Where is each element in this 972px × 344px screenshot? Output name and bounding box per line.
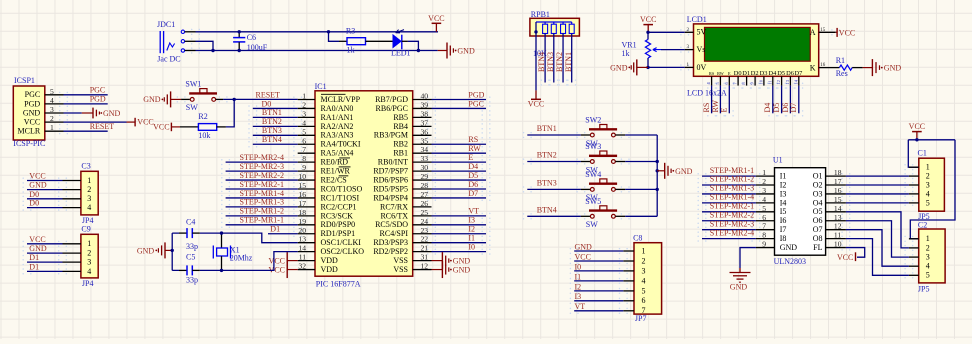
switch SW4 [581, 170, 625, 202]
capacitor C6 100uF [233, 32, 268, 52]
svg-text:I2: I2 [780, 180, 787, 189]
svg-text:3: 3 [926, 180, 930, 189]
svg-text:RS: RS [709, 71, 715, 76]
wire STEP-MR1-1 (U1) [702, 175, 756, 177]
svg-text:R1: R1 [836, 56, 845, 65]
svg-text:GND: GND [143, 95, 161, 104]
svg-text:I2: I2 [575, 282, 582, 291]
svg-text:RA4/T0CKI: RA4/T0CKI [321, 140, 361, 149]
svg-text:4: 4 [926, 189, 930, 198]
svg-text:VCC: VCC [839, 28, 855, 37]
wire D0 (C3 pin3) [27, 198, 63, 200]
svg-text:JP4: JP4 [82, 279, 94, 288]
svg-text:3: 3 [926, 253, 930, 262]
svg-text:1k: 1k [347, 46, 355, 55]
wire switch common bus [656, 135, 658, 216]
svg-text:VT: VT [468, 207, 479, 216]
power port GND (top right) [438, 43, 475, 59]
LCD module LCD1 (LCD 16x2A) [685, 15, 836, 98]
power port GND (VSS pin12) [432, 261, 471, 278]
svg-text:8: 8 [762, 231, 766, 240]
svg-text:I1: I1 [468, 234, 475, 243]
svg-text:26: 26 [421, 199, 429, 208]
wire RW (right) [432, 152, 487, 154]
svg-text:13: 13 [834, 213, 842, 222]
svg-text:1k: 1k [622, 49, 630, 58]
svg-text:STEP-MR2-4: STEP-MR2-4 [240, 153, 284, 162]
junction LED/bottom rail [417, 49, 420, 52]
svg-text:E: E [728, 71, 731, 76]
svg-text:16: 16 [298, 190, 306, 199]
svg-text:RD4/PSP4: RD4/PSP4 [373, 193, 408, 202]
wire bottom rail [196, 50, 438, 52]
svg-text:VCC: VCC [137, 118, 153, 127]
svg-text:Jac DC: Jac DC [157, 55, 180, 64]
svg-text:R3: R3 [346, 27, 355, 36]
svg-text:STEP-MR2-1: STEP-MR2-1 [710, 202, 754, 211]
power port VCC (LCD A) [836, 28, 856, 37]
svg-text:VCC: VCC [269, 257, 285, 266]
svg-text:17: 17 [298, 199, 306, 208]
svg-text:VCC: VCC [575, 252, 591, 261]
wire middle jack pin down to bottom rail [196, 41, 214, 50]
wire D6 (right) [432, 188, 487, 190]
switch SW1 [181, 80, 223, 113]
svg-text:VSS: VSS [393, 265, 408, 274]
wire GND (C8) [574, 250, 623, 252]
svg-text:RESET: RESET [256, 90, 281, 99]
svg-text:SW: SW [186, 103, 198, 112]
svg-text:27: 27 [421, 190, 429, 199]
svg-text:GND: GND [29, 181, 47, 190]
svg-text:GND: GND [675, 167, 693, 176]
svg-text:OSC1/CLKI: OSC1/CLKI [321, 238, 362, 247]
svg-text:12: 12 [421, 262, 429, 271]
wire D4 (LCD) [772, 86, 774, 114]
svg-text:2: 2 [87, 249, 91, 258]
wire PGD (right) [432, 99, 487, 101]
svg-text:4: 4 [302, 118, 306, 127]
wire VCC distribution loop [908, 140, 955, 239]
svg-text:SW1: SW1 [185, 80, 201, 89]
svg-text:ULN2803: ULN2803 [774, 257, 806, 266]
svg-text:VCC: VCC [640, 15, 656, 24]
svg-text:U1: U1 [773, 156, 783, 165]
wire VCC to 5V [648, 31, 685, 32]
svg-text:5: 5 [50, 87, 54, 96]
power port GND (crystal) [137, 242, 172, 258]
svg-text:GND: GND [23, 108, 41, 117]
svg-text:GND: GND [453, 257, 471, 266]
wire D1 (pin20) [268, 233, 298, 235]
svg-text:D5: D5 [777, 70, 785, 77]
power port GND (SW1) [143, 91, 181, 107]
svg-text:24: 24 [421, 217, 429, 226]
svg-text:4: 4 [926, 262, 930, 271]
power port VCC (VDD pin32) [269, 261, 298, 278]
svg-text:16: 16 [834, 186, 842, 195]
wire STEP-MR2-2 (U1) [702, 220, 756, 222]
svg-text:RB7/PGD: RB7/PGD [375, 95, 408, 104]
svg-text:RW: RW [717, 71, 724, 76]
svg-text:O7: O7 [813, 225, 823, 234]
svg-text:JP5: JP5 [918, 284, 930, 293]
svg-text:D5: D5 [772, 103, 781, 113]
svg-text:PIC 16F877A: PIC 16F877A [316, 280, 361, 289]
svg-text:C1: C1 [918, 149, 927, 158]
svg-text:O4: O4 [813, 198, 823, 207]
svg-text:30: 30 [421, 163, 429, 172]
junction GND tap [171, 249, 174, 252]
svg-text:JP7: JP7 [635, 314, 647, 323]
power port VCC (R2) [153, 123, 180, 132]
IC IC1 PIC 16F877A [298, 82, 432, 289]
power port VCC (RPB1) [528, 90, 544, 108]
svg-text:GND: GND [610, 63, 628, 72]
svg-text:PGD: PGD [468, 90, 484, 99]
junction RPB1 common [534, 30, 537, 33]
svg-text:RW: RW [711, 100, 720, 113]
svg-text:2: 2 [762, 177, 766, 186]
svg-text:VDD: VDD [321, 265, 339, 274]
svg-text:RC0/T1OSO: RC0/T1OSO [321, 184, 363, 193]
svg-text:PGD: PGD [90, 95, 106, 104]
svg-text:2: 2 [926, 243, 930, 252]
wire BTN1 (RPB1 pin) [571, 34, 573, 83]
svg-text:D4: D4 [763, 103, 772, 113]
switch SW3 [581, 142, 625, 174]
svg-text:1: 1 [926, 163, 930, 172]
svg-text:C5: C5 [186, 252, 195, 261]
svg-text:I4: I4 [780, 198, 787, 207]
svg-text:1: 1 [302, 92, 306, 101]
svg-text:RA2/AN2: RA2/AN2 [321, 122, 354, 131]
svg-text:9: 9 [302, 163, 306, 172]
svg-text:13: 13 [298, 235, 306, 244]
svg-text:BTN3: BTN3 [546, 52, 555, 72]
svg-text:10k: 10k [198, 131, 210, 140]
svg-text:VCC: VCC [909, 122, 925, 131]
svg-text:STEP-MR1-3: STEP-MR1-3 [710, 184, 754, 193]
wire BTN1 (pin3) [253, 116, 298, 118]
wire D6 (LCD) [789, 86, 791, 114]
connector C8 (JP7) [623, 234, 661, 323]
wire O2 to C1 pin3 [846, 184, 909, 186]
svg-text:1: 1 [87, 176, 91, 185]
svg-text:R2: R2 [198, 112, 207, 121]
svg-text:RC2/CCP1: RC2/CCP1 [321, 202, 357, 211]
wire GND (C9 pin2) [27, 252, 63, 254]
svg-text:JDC1: JDC1 [157, 20, 175, 29]
power port VCC (VR1) [640, 15, 656, 31]
wire E (right) [432, 161, 487, 163]
svg-text:STEP-MR1-4: STEP-MR1-4 [240, 189, 284, 198]
svg-text:D6: D6 [468, 180, 478, 189]
svg-text:BTN2: BTN2 [537, 151, 557, 160]
svg-text:LED1: LED1 [391, 48, 411, 57]
svg-text:RESET: RESET [90, 122, 115, 131]
connector C2 (JP5) [909, 221, 945, 294]
wire RS (right) [432, 143, 487, 145]
svg-text:33: 33 [421, 154, 429, 163]
svg-text:ICSP-PIC: ICSP-PIC [13, 139, 45, 148]
junction VCC stem [915, 138, 918, 141]
wire SW3 to bus [625, 161, 657, 163]
junction bus GND [656, 169, 659, 172]
wire SW1 to IC pin1 (RESET) [223, 98, 298, 100]
svg-text:39: 39 [421, 100, 429, 109]
svg-text:14: 14 [793, 79, 798, 84]
svg-text:STEP-MR2-3: STEP-MR2-3 [710, 219, 754, 228]
svg-text:GND: GND [457, 47, 475, 56]
switch SW5 [581, 197, 625, 229]
wire STEP-MR1-2 [226, 215, 298, 217]
svg-text:I3: I3 [468, 216, 475, 225]
svg-text:RB0/INT: RB0/INT [378, 158, 408, 167]
svg-text:RB4: RB4 [393, 122, 408, 131]
wire RS (LCD) [711, 86, 713, 114]
svg-text:35: 35 [421, 136, 429, 145]
svg-text:12: 12 [834, 222, 842, 231]
svg-text:BTN1: BTN1 [564, 52, 573, 72]
svg-text:33p: 33p [186, 242, 198, 251]
svg-text:1: 1 [87, 239, 91, 248]
svg-text:D5: D5 [468, 171, 478, 180]
svg-text:VCC: VCC [837, 253, 853, 262]
wire STEP-MR2-3 (U1) [702, 229, 756, 231]
svg-text:LCD1: LCD1 [687, 15, 707, 24]
power port VCC (ICSP) [127, 118, 154, 127]
svg-text:15: 15 [298, 181, 306, 190]
svg-text:6: 6 [642, 296, 646, 305]
svg-text:15: 15 [820, 28, 826, 33]
svg-text:D7: D7 [789, 103, 798, 113]
wire left vertical C4-C5 [171, 233, 173, 270]
wire STEP-MR1-2 (U1) [702, 184, 756, 186]
wire D5 (LCD) [781, 86, 783, 114]
wire STEP-MR1-4 (U1) [702, 202, 756, 204]
svg-text:BTN4: BTN4 [262, 135, 282, 144]
wire D0 (pin2) [253, 107, 298, 109]
capacitor C5 33p [179, 252, 200, 284]
svg-text:SW2: SW2 [585, 116, 601, 125]
wire PGD [64, 103, 108, 105]
wire I0 (right) [432, 251, 487, 253]
wire PGC (right) [432, 107, 487, 109]
svg-text:5V: 5V [697, 28, 707, 37]
svg-text:7: 7 [762, 222, 766, 231]
svg-text:VSS: VSS [393, 256, 408, 265]
switch SW2 [581, 116, 625, 148]
wire D5 (right) [432, 179, 487, 181]
svg-text:D0: D0 [734, 70, 742, 77]
svg-text:I3: I3 [780, 189, 787, 198]
svg-text:17: 17 [834, 177, 842, 186]
svg-text:38: 38 [421, 109, 429, 118]
svg-text:GND: GND [730, 283, 748, 292]
svg-text:I8: I8 [780, 234, 787, 243]
wire BTN2 (pin4) [253, 125, 298, 127]
svg-text:VCC: VCC [528, 100, 544, 109]
svg-text:I5: I5 [780, 207, 787, 216]
svg-text:C3: C3 [81, 162, 90, 171]
connector C1 (JP5) [909, 149, 944, 222]
junction C6 bottom [238, 49, 241, 52]
wire top rail drop to R3 [329, 32, 340, 42]
svg-text:25: 25 [421, 208, 429, 217]
svg-text:VDD: VDD [321, 256, 339, 265]
junction C6 top [238, 30, 241, 33]
svg-text:D0: D0 [262, 99, 272, 108]
svg-text:33p: 33p [186, 276, 198, 285]
svg-text:D1: D1 [29, 253, 39, 262]
svg-text:I0: I0 [575, 262, 582, 271]
svg-text:I2: I2 [468, 225, 475, 234]
wire D7 (LCD) [798, 86, 800, 114]
connector C3 (JP4) [63, 162, 99, 225]
svg-text:2: 2 [642, 256, 646, 265]
svg-text:3: 3 [302, 109, 306, 118]
svg-text:O6: O6 [813, 216, 823, 225]
svg-text:RC7/RX: RC7/RX [380, 202, 408, 211]
svg-text:7: 7 [302, 145, 306, 154]
wire BTN1 to SW2 [527, 134, 581, 136]
svg-text:1: 1 [642, 246, 646, 255]
connector ICSP1 (ICSP-PIC header) [13, 76, 63, 148]
svg-text:C9: C9 [81, 225, 90, 234]
svg-text:O2: O2 [813, 180, 823, 189]
wire SW5 to bus [625, 215, 657, 217]
svg-text:VT: VT [575, 302, 586, 311]
svg-text:3: 3 [642, 266, 646, 275]
svg-text:RD0/PSP0: RD0/PSP0 [321, 220, 356, 229]
svg-text:RC5/SDO: RC5/SDO [375, 220, 408, 229]
svg-text:GND: GND [453, 265, 471, 274]
wire BTN4 (pin6) [253, 143, 298, 145]
svg-text:10: 10 [759, 79, 764, 84]
svg-text:6: 6 [302, 136, 306, 145]
svg-text:I7: I7 [780, 225, 787, 234]
resistor pack RPB1 10K [530, 10, 580, 58]
capacitor C4 33p [179, 218, 200, 252]
svg-text:STEP-MR2-1: STEP-MR2-1 [240, 180, 284, 189]
svg-text:31: 31 [421, 253, 429, 262]
wire VCC pin2 [64, 121, 127, 123]
svg-text:RD5/PSP5: RD5/PSP5 [373, 184, 408, 193]
svg-text:2: 2 [87, 185, 91, 194]
svg-text:RE2/CS: RE2/CS [321, 175, 347, 184]
crystal X1 20Mhz [213, 233, 253, 270]
svg-text:4: 4 [762, 195, 766, 204]
svg-text:RD1/PSP1: RD1/PSP1 [321, 229, 356, 238]
junction X1 top [220, 231, 223, 234]
svg-text:C4: C4 [186, 218, 195, 227]
svg-text:PGC: PGC [468, 99, 484, 108]
svg-text:D2: D2 [751, 70, 759, 77]
wire O7 to C2 pin4 [846, 230, 909, 267]
wire U1 GND pin9 [740, 248, 756, 268]
wire RW (LCD) [719, 86, 721, 114]
svg-text:SW4: SW4 [585, 170, 601, 179]
wire SW4 to bus [625, 188, 657, 190]
svg-text:18: 18 [298, 208, 306, 217]
wire BTN3 (RPB1 pin) [553, 34, 555, 83]
junction X1 bottom [220, 269, 223, 272]
wire STEP-MR2-4 (U1) [702, 238, 756, 240]
svg-text:C6: C6 [247, 33, 256, 42]
svg-text:RA1/AN1: RA1/AN1 [321, 113, 354, 122]
svg-text:O8: O8 [813, 234, 823, 243]
svg-text:JP4: JP4 [82, 216, 94, 225]
svg-text:STEP-MR1-1: STEP-MR1-1 [710, 166, 754, 175]
wire I2 (C8) [574, 290, 623, 292]
svg-text:5: 5 [926, 271, 930, 280]
svg-text:SW: SW [586, 220, 598, 229]
svg-text:D1: D1 [29, 263, 39, 272]
svg-text:BTN1: BTN1 [262, 108, 282, 117]
svg-text:4: 4 [87, 203, 91, 212]
svg-text:OSC2/CLKO: OSC2/CLKO [321, 247, 365, 256]
svg-text:D7: D7 [794, 70, 803, 77]
svg-text:GND: GND [29, 244, 47, 253]
wire GND (C3 pin2) [27, 189, 63, 191]
wire VT (C8) [574, 310, 623, 312]
svg-text:VCC: VCC [428, 14, 444, 23]
wire BTN4 to SW5 [527, 215, 581, 217]
wire O6 to C2 pin3 [846, 221, 909, 257]
power port GND (R1) [863, 59, 902, 76]
svg-text:D1: D1 [270, 225, 280, 234]
svg-text:MCLR: MCLR [18, 127, 41, 136]
svg-text:D6: D6 [786, 70, 794, 77]
svg-text:10: 10 [298, 172, 306, 181]
svg-text:I1: I1 [780, 172, 787, 181]
svg-text:5: 5 [926, 198, 930, 207]
LED1 [391, 30, 411, 58]
svg-text:23: 23 [421, 226, 429, 235]
svg-text:O5: O5 [813, 207, 823, 216]
wire I1 (C8) [574, 280, 623, 282]
wire top rail from JDC1 to VCC [196, 31, 439, 33]
svg-text:BTN3: BTN3 [537, 179, 557, 188]
junction bus SW3 [656, 160, 659, 163]
svg-text:D0: D0 [29, 199, 39, 208]
wire BTN4 (RPB1 pin) [544, 34, 546, 83]
svg-text:VCC: VCC [153, 123, 169, 132]
wire VCC (C3 pin1) [27, 180, 63, 182]
svg-text:STEP-MR1-1: STEP-MR1-1 [240, 216, 284, 225]
svg-text:RS: RS [702, 103, 711, 113]
svg-text:5: 5 [642, 286, 646, 295]
svg-text:21: 21 [421, 244, 429, 253]
svg-text:9: 9 [762, 240, 766, 249]
wire STEP-MR2-1 (U1) [702, 211, 756, 213]
power port GND (ICSP) [82, 108, 121, 119]
junction VR1 bottom [646, 66, 649, 69]
svg-text:GND: GND [575, 242, 593, 251]
junction SW1/R2 [233, 98, 236, 101]
svg-text:GND: GND [884, 64, 902, 73]
power port VCC (FL) [837, 252, 856, 262]
svg-text:4: 4 [87, 267, 91, 276]
wire BTN3 (pin5) [253, 134, 298, 136]
power port GND (VR1) [610, 59, 648, 75]
resistor R2 10k [180, 112, 226, 140]
svg-text:6: 6 [762, 213, 766, 222]
svg-text:1: 1 [926, 234, 930, 243]
wire D1 (C9 pin4) [27, 270, 63, 272]
wire LED to bottom rail [408, 41, 419, 50]
